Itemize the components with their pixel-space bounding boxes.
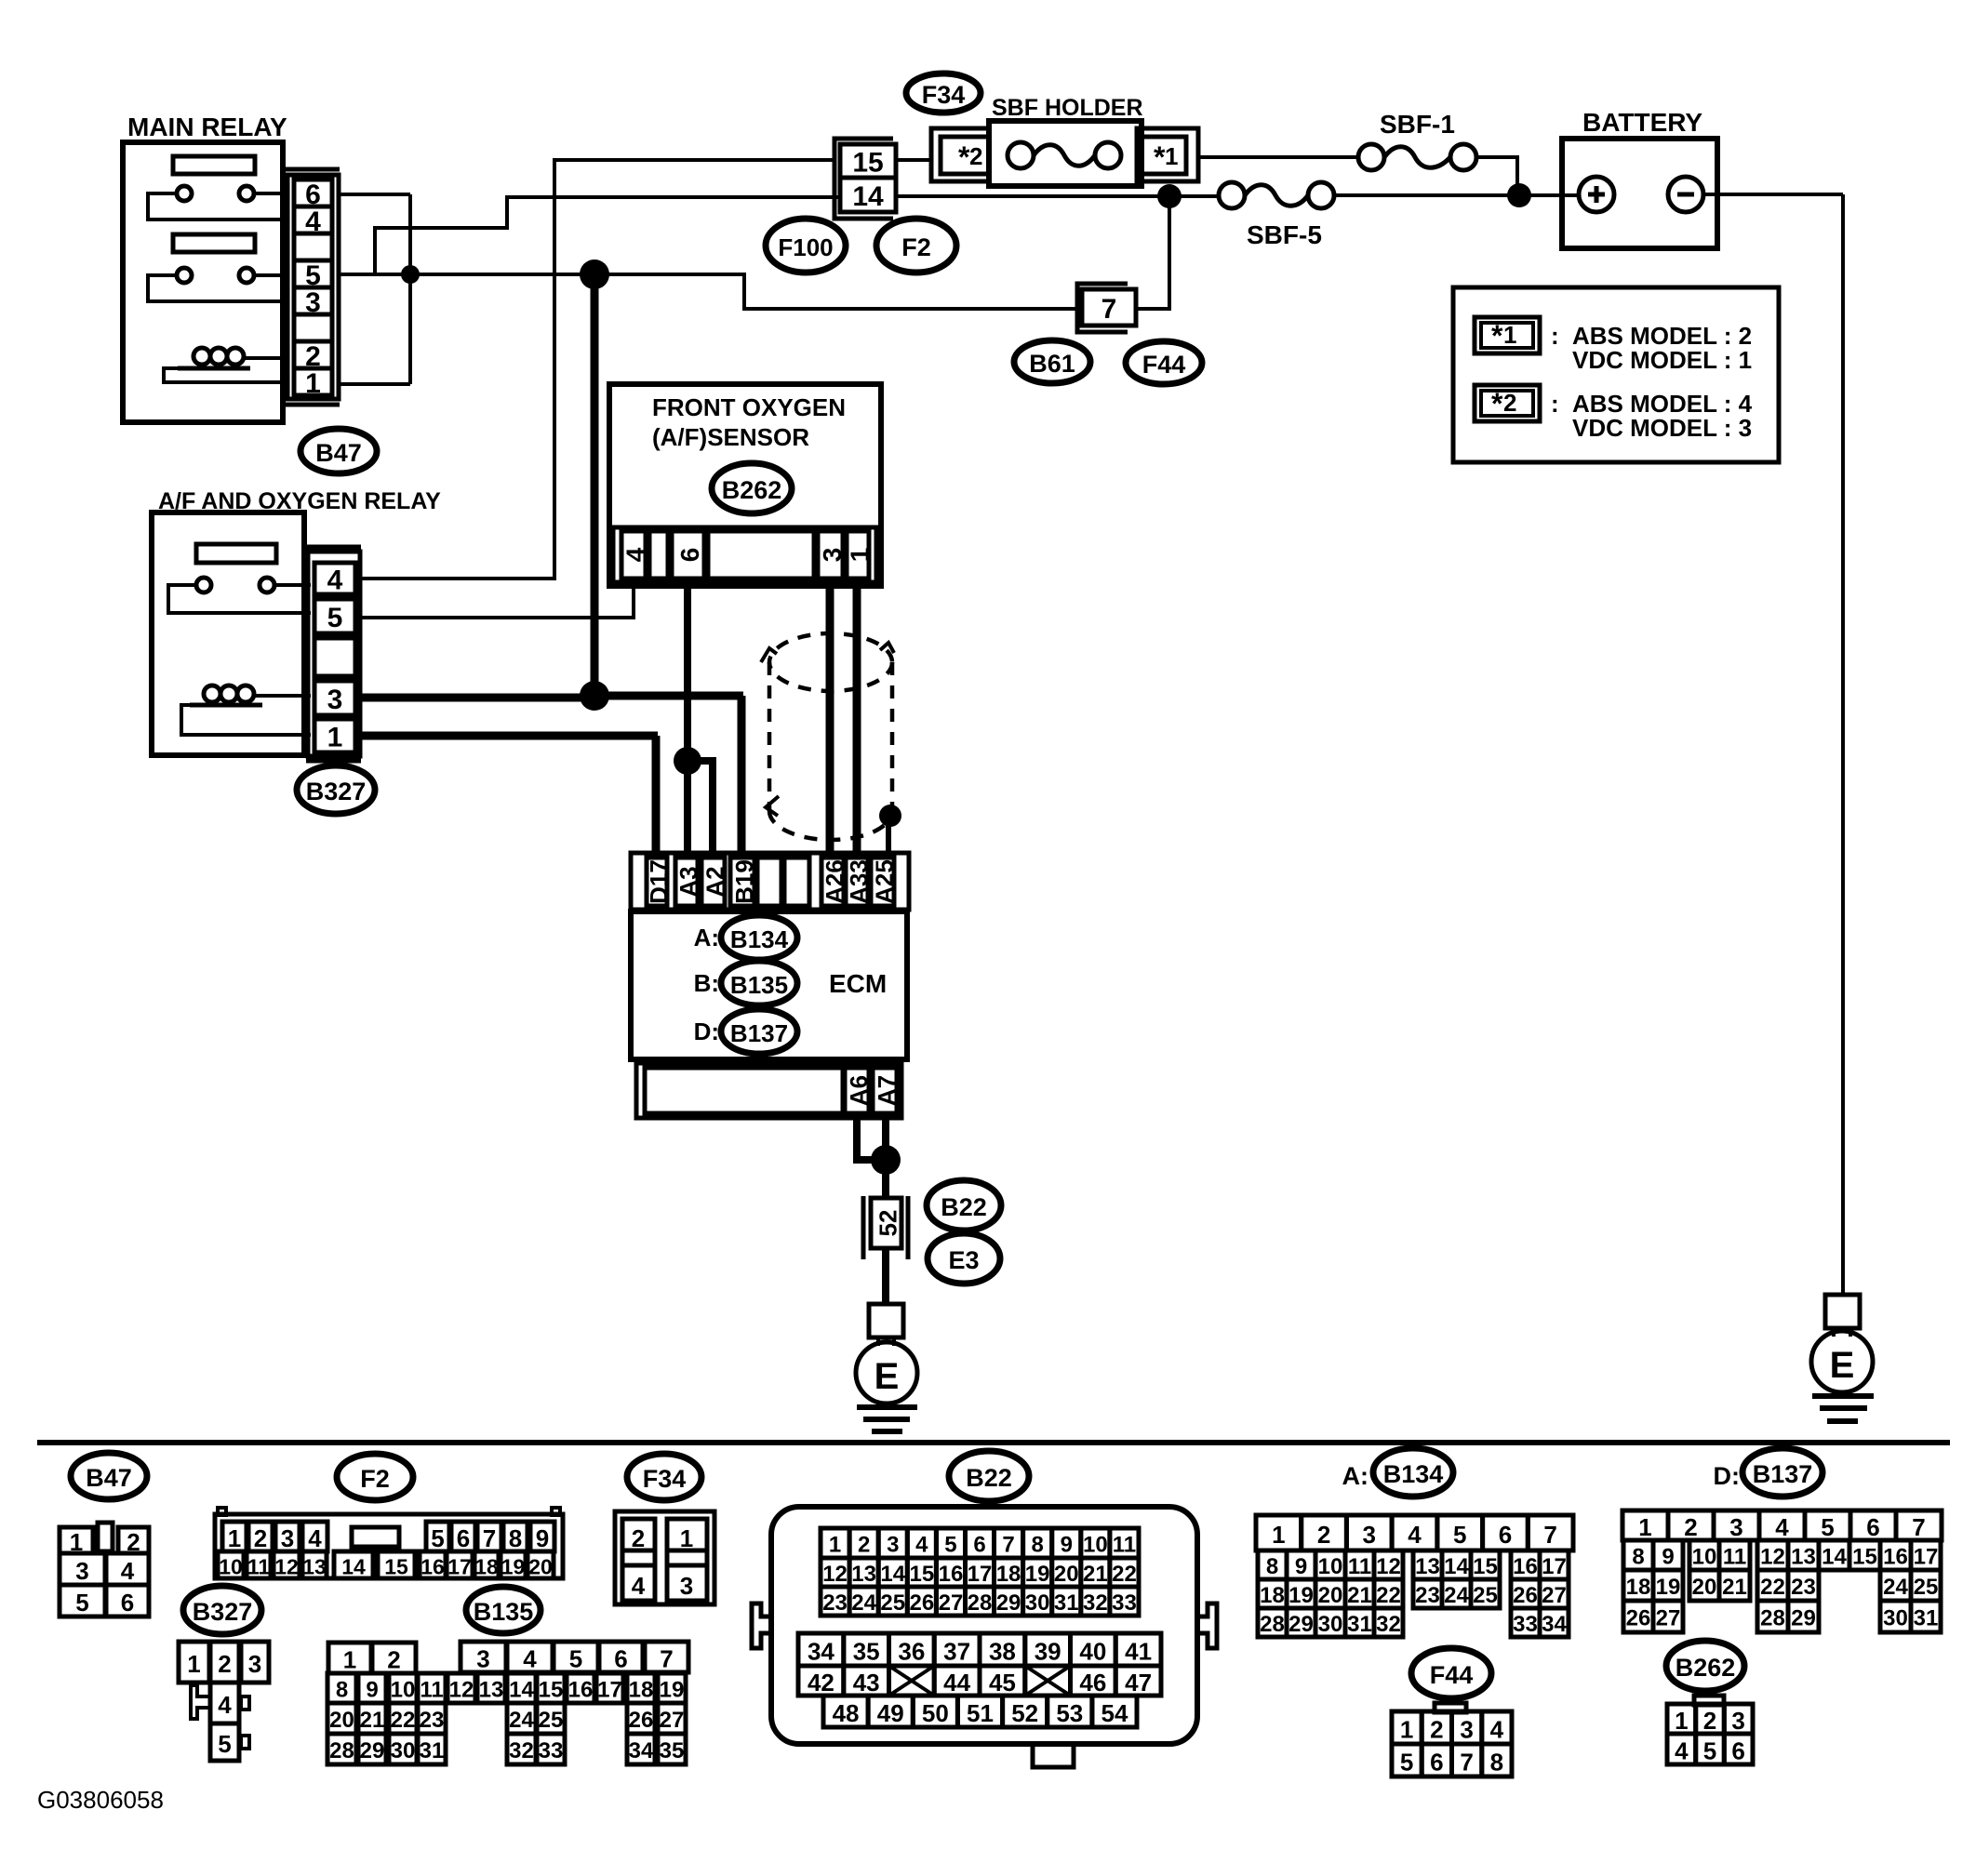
svg-text:32: 32 [1083,1590,1108,1616]
svg-text:51: 51 [967,1699,994,1727]
oxygen relay contact bar [196,544,276,563]
svg-text:F100: F100 [778,233,833,261]
svg-text:B135: B135 [730,971,788,999]
svg-text:A:: A: [1342,1462,1369,1490]
svg-text:26: 26 [1626,1606,1651,1631]
wire ECM A7 down [882,1118,889,1198]
svg-text:1: 1 [305,368,321,399]
svg-text:29: 29 [360,1738,385,1763]
svg-text:38: 38 [989,1638,1016,1666]
svg-text:11: 11 [420,1678,443,1703]
svg-text:31: 31 [1347,1612,1372,1637]
connector strip B47 (main relay) [285,167,340,172]
svg-text:2: 2 [218,1650,231,1678]
svg-text:6: 6 [614,1645,627,1673]
svg-text:8: 8 [1632,1545,1644,1570]
svg-text:3: 3 [818,548,847,563]
svg-text:20: 20 [528,1555,553,1579]
svg-text:B47: B47 [86,1464,132,1492]
B47 pin 2 [294,341,332,368]
svg-text:22: 22 [1376,1583,1401,1608]
SBF holder *1 terminal [1137,128,1198,181]
F44 pin 7 cell [1082,289,1136,326]
pinout label B134 [1373,1448,1453,1497]
svg-text:4: 4 [218,1691,232,1719]
battery plus terminal [1579,177,1614,212]
wire sensor-3 to ECM A26 [826,584,834,858]
svg-text:SBF HOLDER: SBF HOLDER [992,95,1143,121]
svg-text:47: 47 [1125,1669,1152,1696]
ECM body [631,911,907,1059]
svg-text:12: 12 [1760,1545,1785,1570]
battery minus terminal [1668,177,1703,212]
svg-text:26: 26 [1513,1583,1538,1608]
separator line [37,1440,1950,1445]
svg-text:25: 25 [1914,1575,1939,1600]
svg-text:4: 4 [915,1533,928,1558]
shield arrow marks [761,648,777,662]
front oxygen sensor body B262 [609,384,881,586]
svg-text:14: 14 [341,1555,366,1579]
svg-text:F2: F2 [901,233,931,261]
pinout label B137 [1742,1448,1822,1497]
ECM pin A6 [845,1068,869,1113]
svg-text:16: 16 [939,1562,964,1587]
svg-text::: : [1551,390,1559,418]
svg-text:31: 31 [420,1738,445,1763]
svg-text:11: 11 [1723,1545,1746,1570]
svg-text:12: 12 [1376,1554,1401,1579]
svg-text:8: 8 [1266,1554,1278,1579]
svg-text:28: 28 [968,1590,993,1616]
oxygen relay contact right terminal [260,578,274,592]
svg-text:4: 4 [1775,1513,1789,1541]
main relay contact 2 wire to pin 5 [254,273,289,277]
svg-text:29: 29 [1791,1606,1816,1631]
SBF holder fuse element right cap [1095,142,1121,168]
ECM bottom connector strip [636,1063,901,1118]
svg-text:13: 13 [1791,1545,1816,1570]
connector label B22 [927,1180,1001,1231]
fuse SBF-1 [1358,144,1384,170]
svg-text:B137: B137 [730,1019,788,1047]
oxygen relay contact wire to pin 5 [168,585,311,613]
B22 pins 48-54 [823,1696,868,1727]
junction oxygen heater feed [580,681,609,711]
svg-text:(A/F)SENSOR: (A/F)SENSOR [652,423,809,451]
pinout connector B262 [1694,1696,1724,1705]
ECM bottom blank cell [645,1068,843,1113]
svg-text:33: 33 [1112,1590,1137,1616]
B22 pins 12-22 [821,1558,849,1587]
svg-text:18: 18 [1626,1575,1651,1600]
svg-text:*: * [1491,319,1503,353]
svg-text:B262: B262 [1676,1654,1736,1682]
svg-text:4: 4 [1408,1521,1422,1549]
sensor pin 6 [672,531,704,579]
wire pin5 to junction [339,273,594,276]
svg-text:49: 49 [877,1699,904,1727]
svg-text:20: 20 [1692,1575,1717,1600]
svg-text:11: 11 [1348,1554,1371,1579]
svg-text:3: 3 [680,1572,693,1600]
main relay contact 2 right terminal [239,268,254,283]
svg-text:B47: B47 [315,439,362,467]
ground terminal box (left) [869,1304,903,1337]
svg-text:20: 20 [329,1708,354,1733]
pinout connector F34 [615,1511,714,1604]
svg-text:11: 11 [1113,1533,1136,1558]
svg-text::: : [1551,322,1559,350]
svg-text:8: 8 [1031,1533,1043,1558]
svg-text:3: 3 [887,1533,899,1558]
svg-text:23: 23 [1415,1583,1440,1608]
svg-text:1: 1 [1675,1707,1688,1735]
pinout label B327 [183,1586,261,1634]
svg-text:6: 6 [1731,1737,1744,1765]
svg-text:16: 16 [568,1678,594,1703]
svg-text:30: 30 [1318,1612,1343,1637]
svg-text:29: 29 [996,1590,1021,1616]
svg-text:19: 19 [1288,1583,1314,1608]
wire F34-15 to SBF holder *2 [896,158,931,162]
svg-text:14: 14 [852,181,884,212]
svg-text:B134: B134 [730,925,789,953]
svg-text:B134: B134 [1383,1460,1444,1488]
connector label B61 [1014,340,1090,383]
svg-text:32: 32 [509,1738,534,1763]
ECM pin B19 [730,858,754,906]
svg-text:54: 54 [1101,1699,1128,1727]
pinout connector B47 [60,1527,93,1553]
svg-text:8: 8 [1490,1749,1503,1776]
ECM connector label B134 [721,915,797,960]
sensor pin 4 [621,531,646,579]
ECM connector label B135 [721,961,797,1005]
svg-text:*: * [1491,387,1503,420]
svg-text:D17: D17 [645,859,673,904]
svg-text:5: 5 [431,1524,444,1552]
B22 pins 34-41 [798,1633,844,1666]
svg-text:41: 41 [1125,1638,1152,1666]
svg-text:1: 1 [327,723,343,753]
svg-text:24: 24 [1444,1583,1469,1608]
connector label B262 (sensor) [712,463,792,513]
svg-text:A2: A2 [701,866,729,897]
svg-text:28: 28 [1760,1606,1785,1631]
wire branch to ECM A2 [688,761,713,858]
svg-text:31: 31 [1054,1590,1079,1616]
svg-text:22: 22 [1760,1575,1785,1600]
pinout label F44 [1411,1648,1491,1698]
svg-text:3: 3 [1363,1521,1376,1549]
main relay contact bar 2 [173,234,255,252]
wire pin6 [339,193,410,196]
svg-text:6: 6 [1499,1521,1512,1549]
svg-text:16: 16 [421,1555,445,1579]
svg-text:21: 21 [360,1708,385,1733]
shield around sensor signal wires [769,633,892,840]
connector label B47 [300,429,377,473]
svg-text:17: 17 [1914,1545,1939,1570]
B47 blank cell [294,233,332,260]
svg-text:3: 3 [248,1650,261,1678]
svg-text:F34: F34 [643,1465,687,1493]
sensor wide blank cell [708,531,814,579]
svg-text:MAIN RELAY: MAIN RELAY [127,113,287,141]
svg-text:A7: A7 [873,1075,901,1106]
fuse SBF-5 [1219,182,1245,208]
svg-text:2: 2 [1430,1716,1443,1744]
svg-text:SBF-5: SBF-5 [1247,220,1322,249]
svg-text:G03806058: G03806058 [37,1786,164,1814]
svg-text:5: 5 [944,1533,956,1558]
svg-text:50: 50 [922,1699,949,1727]
svg-text:1: 1 [829,1533,841,1558]
svg-text:45: 45 [989,1669,1016,1696]
wire battery minus down to ground [1841,194,1845,1295]
svg-text:35: 35 [660,1738,685,1763]
wire pin6-pin1 vertical [408,194,412,384]
svg-text:B:: B: [694,969,719,997]
legend *1 symbol [1475,317,1540,353]
svg-text:18: 18 [996,1562,1021,1587]
svg-text:26: 26 [629,1708,654,1733]
svg-text:44: 44 [943,1669,970,1696]
svg-text:VDC MODEL : 3: VDC MODEL : 3 [1572,414,1752,442]
svg-text:3: 3 [327,685,343,715]
svg-text:2: 2 [969,142,982,170]
svg-text:19: 19 [1025,1562,1050,1587]
svg-text:1: 1 [1400,1716,1413,1744]
main relay coil wire to pin 2 [244,356,289,360]
svg-text:F44: F44 [1142,351,1186,379]
wire F44-7 to battery line [1136,196,1169,309]
SBF holder *2 terminal [931,128,989,181]
svg-text:28: 28 [1260,1612,1285,1637]
svg-text:3: 3 [1729,1513,1742,1541]
svg-text:27: 27 [660,1708,685,1733]
svg-text:52: 52 [875,1210,902,1237]
wire battery minus out [1703,193,1843,196]
ECM pin A26 [821,858,844,906]
svg-text:24: 24 [509,1708,534,1733]
svg-text:42: 42 [808,1669,834,1696]
svg-text:26: 26 [909,1590,934,1616]
svg-text:B135: B135 [474,1598,534,1626]
svg-text:7: 7 [1002,1533,1014,1558]
F34 pin 14 [840,178,896,212]
svg-text:1: 1 [680,1524,693,1552]
svg-text:31: 31 [1914,1606,1939,1631]
connector label E3 [928,1233,1000,1284]
svg-text:43: 43 [853,1669,880,1696]
B47 pin 5 [294,260,332,287]
SBF holder fuse box [989,121,1142,186]
svg-text:4: 4 [327,565,343,596]
svg-text:D:: D: [694,1018,719,1045]
wire B327-4 to F34 pin 15 [360,160,836,579]
svg-text:6: 6 [121,1589,134,1617]
svg-text:5: 5 [218,1730,231,1758]
svg-text:1: 1 [187,1650,200,1678]
junction A6/A7 ground [871,1145,901,1175]
svg-text:9: 9 [536,1524,549,1552]
ECM blank pin cell [757,858,781,906]
svg-text:VDC MODEL : 1: VDC MODEL : 1 [1572,346,1752,374]
main relay contact bar 1 [173,156,255,174]
svg-text:4: 4 [621,547,650,562]
thick wire B327-3 to junction [360,694,594,702]
wire into battery plus [1562,193,1579,197]
svg-text:21: 21 [1083,1562,1108,1587]
main relay contact 1 wire to pin 6 [254,192,289,195]
svg-text:FRONT OXYGEN: FRONT OXYGEN [652,393,846,421]
oxygen relay coil wire to pin 1 [181,705,311,735]
svg-text:18: 18 [629,1678,654,1703]
svg-text:22: 22 [391,1708,416,1733]
svg-text:B327: B327 [193,1598,253,1626]
oxygen relay coil underline [190,703,262,708]
main relay coil wire to pin 1 [164,368,289,382]
svg-text:53: 53 [1056,1699,1083,1727]
svg-text:9: 9 [366,1678,378,1703]
thick wire main feed down to oxygen relay net [591,274,599,696]
connector label F44 [1126,341,1202,384]
ECM blank pin cell [784,858,809,906]
pinout connector F44 [1435,1703,1466,1712]
svg-text:A6: A6 [845,1075,873,1106]
wire shield drain to ECM A25 [886,818,891,858]
svg-text:15: 15 [852,148,883,179]
wire F2-14 to SBF-5 [896,194,1219,198]
wire junction to F44 pin 7 [594,274,1084,309]
B22 pin 52 cell [871,1198,901,1248]
svg-text:15: 15 [909,1562,934,1587]
svg-text:2: 2 [387,1646,400,1674]
svg-text:6: 6 [1866,1513,1879,1541]
svg-text:13: 13 [851,1562,876,1587]
svg-text:10: 10 [391,1678,416,1703]
svg-text:23: 23 [1791,1575,1816,1600]
svg-text:6: 6 [1430,1749,1443,1776]
svg-text:34: 34 [1542,1612,1567,1637]
svg-text:B61: B61 [1029,350,1075,378]
svg-text:15: 15 [1852,1545,1877,1570]
pinout connector B22 body [771,1507,1197,1744]
wire *1 to SBF-1 [1198,155,1358,159]
svg-text:36: 36 [898,1638,925,1666]
svg-text:F34: F34 [922,81,966,109]
svg-text:SBF-1: SBF-1 [1380,110,1455,139]
svg-text:B19: B19 [730,859,758,904]
pinout label B262 [1666,1641,1744,1691]
svg-text:14: 14 [1822,1545,1847,1570]
junction battery line / F44-7 [1157,184,1182,208]
main relay contact 2 left terminal [177,268,192,283]
B22 pins 1-11 [821,1528,849,1558]
B327 pin 5 [314,599,355,633]
svg-text:5: 5 [75,1589,88,1617]
svg-text:1: 1 [343,1646,356,1674]
svg-text:27: 27 [1542,1583,1567,1608]
svg-text:10: 10 [1692,1545,1717,1570]
svg-text:39: 39 [1035,1638,1061,1666]
svg-text:B327: B327 [306,778,367,805]
svg-text:7: 7 [1912,1513,1925,1541]
svg-text:16: 16 [1883,1545,1908,1570]
main relay contact 2 wire to pin 3 [148,275,289,301]
B47 pin 1 [294,368,332,395]
svg-text:13: 13 [302,1555,327,1579]
svg-text:16: 16 [1513,1554,1538,1579]
B47 pin 6 [294,180,332,206]
connector pin 52 (B22/E3) [861,1196,866,1259]
svg-text:19: 19 [660,1678,685,1703]
svg-text:2: 2 [858,1533,870,1558]
svg-text:14: 14 [1444,1554,1469,1579]
pinout label B47 [71,1453,147,1499]
svg-text:25: 25 [539,1708,564,1733]
svg-text:17: 17 [1542,1554,1567,1579]
svg-text:6: 6 [675,548,704,563]
B22 pins 42-47 with blocked cells [798,1666,844,1696]
svg-text:27: 27 [1656,1606,1681,1631]
svg-text:4: 4 [1490,1716,1504,1744]
ECM pin A2 [701,858,725,906]
svg-text:15: 15 [384,1555,408,1579]
svg-text:21: 21 [1722,1575,1747,1600]
svg-text:12: 12 [822,1562,848,1587]
oxygen relay body [152,512,304,755]
svg-text:F44: F44 [1430,1661,1474,1689]
svg-text:BATTERY: BATTERY [1582,108,1702,137]
ECM pin A7 [873,1068,897,1113]
thick wire junction to B19 branch [594,692,743,700]
svg-text:46: 46 [1079,1669,1106,1696]
pinout connector B135 [328,1643,371,1673]
pinout label B22 [949,1451,1029,1501]
main relay contact 1 wire to pin 4 [148,193,289,220]
thick wire down to ECM D17 [652,736,661,858]
svg-text:14: 14 [880,1562,905,1587]
main relay body [123,142,283,422]
svg-text:1: 1 [1638,1513,1651,1541]
B137 pins 1-7 [1622,1510,1668,1540]
svg-text:B262: B262 [722,476,782,504]
svg-text:6: 6 [457,1524,470,1552]
connector pin 7 (B61/F44) [1077,284,1128,332]
svg-text:4: 4 [1675,1737,1689,1765]
svg-text:5: 5 [1703,1737,1716,1765]
legend *2 symbol [1475,385,1540,421]
wire B327-5 to sensor pin 4 [360,584,634,618]
svg-text:20: 20 [1054,1562,1079,1587]
connector label F2 [876,219,956,273]
svg-text:22: 22 [1112,1562,1137,1587]
svg-text:8: 8 [509,1524,522,1552]
svg-text:9: 9 [1295,1554,1307,1579]
svg-text:8: 8 [336,1678,348,1703]
thick wire B327-1 to D17 branch [360,732,658,740]
connector F34 pins 15/14 [834,139,893,219]
pinout label B135 [466,1587,541,1633]
svg-text:23: 23 [822,1590,848,1616]
ECM pin A33 [846,858,868,906]
ECM pin D17 [647,858,667,906]
oxygen relay contact wire to pin 4 [274,583,311,587]
svg-text:3: 3 [1731,1707,1744,1735]
